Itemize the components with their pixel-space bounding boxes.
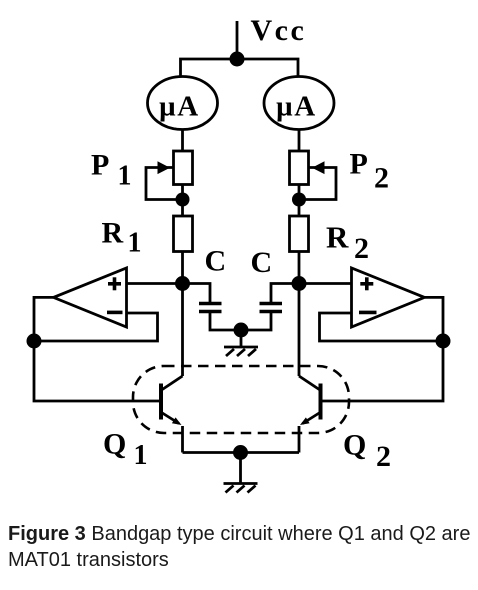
node B (292, 276, 307, 291)
wire U2 output to Q2 base (321, 341, 444, 401)
wire P1 to R1 (181, 185, 184, 217)
svg-text:Q: Q (343, 429, 366, 462)
wire P2 to R2 (298, 185, 301, 217)
wire node B to Q2 collector (298, 284, 301, 377)
capacitor C2 plates (260, 302, 283, 306)
node U1 output junction (27, 334, 42, 349)
wire U1 output to Q1 base (34, 341, 161, 401)
svg-text:2: 2 (374, 162, 389, 195)
svg-text:1: 1 (128, 228, 142, 259)
wire U2 plus input (299, 282, 352, 285)
node emitter junction (233, 445, 248, 460)
current source I1 (148, 77, 218, 130)
transistor Q1 (161, 376, 183, 453)
node capacitor ground junction (234, 323, 249, 338)
op-amp U1 triangle (54, 268, 127, 327)
svg-text:2: 2 (354, 232, 369, 265)
capacitor C1 wires (183, 284, 211, 304)
wire U1 plus input (127, 282, 183, 285)
wire emitter rail (183, 451, 300, 454)
capacitor C1 plates (199, 302, 222, 306)
transistor Q2 emitter arrow (300, 417, 310, 425)
transistor Q2 (299, 376, 321, 453)
potentiometer P2 (290, 151, 309, 185)
wiper arrow P1 (158, 161, 171, 174)
op-amp U2 triangle (352, 268, 425, 327)
svg-text:1: 1 (118, 161, 132, 192)
resistor R1 (174, 216, 193, 252)
label U1 minus (107, 311, 123, 315)
svg-text:C: C (205, 245, 227, 278)
label U2 minus (359, 311, 377, 315)
potentiometer P1 (174, 151, 193, 185)
capacitor C2 wires (271, 284, 299, 304)
svg-text:Q: Q (103, 428, 126, 461)
wiper arrow P2 (312, 161, 325, 174)
caption (8, 521, 478, 573)
wire node A to Q1 collector (181, 284, 184, 377)
label U2 plus (360, 282, 373, 286)
svg-text:µA: µA (276, 91, 317, 123)
node A (175, 276, 190, 291)
svg-text:2: 2 (376, 440, 391, 473)
wire R1 to node A (181, 252, 184, 284)
svg-text:R: R (102, 217, 124, 250)
wire U2 output (425, 297, 443, 341)
wire I1 to P1 (181, 130, 184, 152)
svg-text:Vcc: Vcc (251, 14, 307, 47)
svg-text:C: C (251, 246, 273, 279)
svg-text:P: P (91, 149, 109, 182)
current source I2 (264, 77, 334, 130)
wire I2 to P2 (298, 130, 301, 152)
svg-text:1: 1 (134, 440, 148, 471)
transistor Q1 emitter arrow (172, 417, 182, 425)
wire U1 output (34, 297, 53, 341)
label U1 plus (108, 282, 121, 286)
ground middle (224, 330, 258, 356)
svg-text:µA: µA (159, 91, 200, 123)
wire Vcc stub (236, 21, 239, 59)
node U2 output junction (436, 334, 451, 349)
node P2 wiper junction (292, 193, 306, 207)
wire U2 minus feedback (320, 313, 444, 341)
wire R2 to node B (298, 252, 301, 284)
node top junction (230, 52, 245, 67)
svg-text:P: P (350, 148, 368, 181)
ground bottom (224, 453, 258, 493)
resistor R2 (290, 216, 309, 252)
wire U1 minus feedback (34, 313, 158, 341)
svg-text:R: R (326, 220, 349, 255)
node P1 wiper junction (176, 193, 190, 207)
wire P1 wiper (146, 168, 183, 200)
matched pair dashed outline (133, 366, 349, 433)
wire top rail (181, 59, 299, 77)
wire P2 wiper (299, 168, 336, 200)
